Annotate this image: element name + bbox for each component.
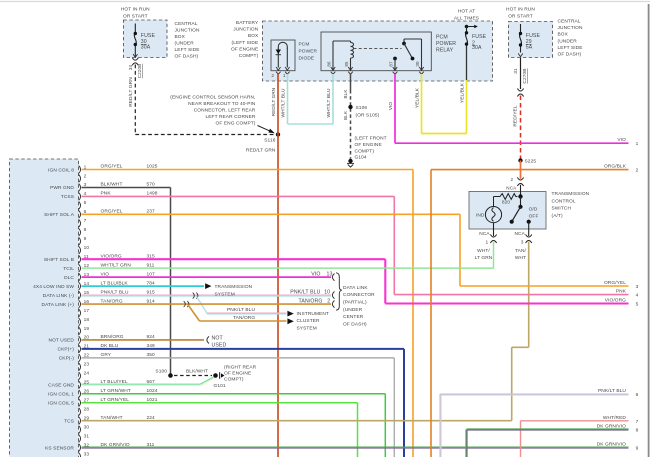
svg-text:CENTRAL: CENTRAL xyxy=(175,21,198,27)
svg-text:17: 17 xyxy=(84,308,90,314)
svg-text:31: 31 xyxy=(84,433,90,439)
svg-text:IGN COIL 1: IGN COIL 1 xyxy=(48,392,74,398)
svg-text:LEFT SIDE: LEFT SIDE xyxy=(175,47,200,53)
svg-text:NOT: NOT xyxy=(212,335,224,341)
svg-text:TCS: TCS xyxy=(64,418,74,424)
svg-text:CONNECTOR: CONNECTOR xyxy=(343,292,375,298)
svg-text:(UNDER: (UNDER xyxy=(175,41,195,47)
svg-text:YEL/BLK: YEL/BLK xyxy=(415,87,421,108)
svg-text:10: 10 xyxy=(84,245,90,251)
svg-text:POWER: POWER xyxy=(299,49,318,55)
svg-text:2: 2 xyxy=(511,177,514,182)
svg-text:NCA: NCA xyxy=(479,231,490,237)
svg-text:WHT/RED: WHT/RED xyxy=(603,415,627,421)
svg-text:BLK/WHT: BLK/WHT xyxy=(186,369,208,375)
svg-text:BLK: BLK xyxy=(343,110,348,120)
svg-text:SYSTEM: SYSTEM xyxy=(215,291,235,297)
svg-text:NOT USED: NOT USED xyxy=(49,338,75,344)
svg-text:30A: 30A xyxy=(141,45,151,51)
svg-text:PCM: PCM xyxy=(436,34,448,40)
svg-text:30: 30 xyxy=(84,424,90,430)
svg-text:28: 28 xyxy=(84,406,90,412)
svg-text:8: 8 xyxy=(636,428,639,434)
svg-text:S100: S100 xyxy=(155,369,167,375)
svg-text:WHT/: WHT/ xyxy=(477,248,490,254)
svg-text:PNK/LT BLU: PNK/LT BLU xyxy=(227,307,255,313)
svg-text:CENTRAL: CENTRAL xyxy=(558,19,581,25)
svg-text:DATA LINK (-): DATA LINK (-) xyxy=(43,293,75,299)
svg-text:BLK: BLK xyxy=(343,89,348,99)
svg-text:CKP(+): CKP(+) xyxy=(58,347,75,353)
svg-text:ORG/BLK: ORG/BLK xyxy=(604,164,627,170)
svg-text:DK GRN/VIO: DK GRN/VIO xyxy=(597,424,626,430)
svg-text:(UNDER: (UNDER xyxy=(343,307,363,313)
svg-text:(LEFT FRONT: (LEFT FRONT xyxy=(355,136,387,142)
svg-text:BATTERY: BATTERY xyxy=(236,20,259,26)
svg-text:5: 5 xyxy=(636,302,639,308)
svg-text:RED/LT GRN: RED/LT GRN xyxy=(246,148,276,154)
svg-text:HOT AT: HOT AT xyxy=(458,9,475,15)
svg-text:INSTRUMENT: INSTRUMENT xyxy=(297,311,329,317)
svg-text:OR START: OR START xyxy=(508,14,533,20)
svg-text:VIO/ORG: VIO/ORG xyxy=(605,298,626,304)
svg-text:G101: G101 xyxy=(214,383,226,389)
svg-text:BOX: BOX xyxy=(558,32,569,38)
svg-text:820: 820 xyxy=(502,200,511,206)
svg-text:24: 24 xyxy=(84,371,90,377)
svg-text:OF DASH): OF DASH) xyxy=(558,52,582,58)
svg-text:VIO: VIO xyxy=(388,102,394,111)
svg-text:2: 2 xyxy=(271,73,274,78)
svg-text:S106: S106 xyxy=(356,105,368,111)
svg-text:7: 7 xyxy=(84,218,87,224)
svg-text:TAN/ORG: TAN/ORG xyxy=(299,298,323,304)
svg-text:DIODE: DIODE xyxy=(299,56,315,62)
svg-text:JUNCTION: JUNCTION xyxy=(558,25,583,31)
svg-text:(RIGHT REAR: (RIGHT REAR xyxy=(224,364,257,370)
svg-text:JUNCTION: JUNCTION xyxy=(233,27,258,33)
svg-text:CONTROL: CONTROL xyxy=(552,198,576,204)
svg-text:S116: S116 xyxy=(264,138,275,144)
svg-text:1: 1 xyxy=(283,73,286,78)
svg-text:34: 34 xyxy=(128,65,133,71)
svg-text:IGN COIL 8: IGN COIL 8 xyxy=(48,167,74,173)
svg-text:CENTER: CENTER xyxy=(343,314,364,320)
svg-text:LEFT SIDE: LEFT SIDE xyxy=(558,45,583,51)
svg-text:4: 4 xyxy=(636,293,639,299)
svg-text:30: 30 xyxy=(415,61,420,67)
svg-text:2: 2 xyxy=(327,298,330,304)
svg-text:TCIL: TCIL xyxy=(63,266,74,272)
svg-text:ORG/YEL: ORG/YEL xyxy=(604,280,626,286)
svg-text:915: 915 xyxy=(147,289,156,295)
svg-text:DK GRN/VIO: DK GRN/VIO xyxy=(597,442,626,448)
svg-text:DATA LINK: DATA LINK xyxy=(343,285,368,291)
svg-text:19: 19 xyxy=(84,326,90,332)
svg-text:TCSS: TCSS xyxy=(61,194,74,200)
svg-text:NCA: NCA xyxy=(506,185,517,190)
svg-text:BOX: BOX xyxy=(248,33,259,39)
svg-text:PWR GND: PWR GND xyxy=(50,185,74,191)
svg-text:3: 3 xyxy=(521,239,524,245)
svg-text:(ENGINE CONTROL SENSOR HARN,: (ENGINE CONTROL SENSOR HARN, xyxy=(170,94,255,100)
svg-text:NCA: NCA xyxy=(514,231,525,237)
svg-text:OF DASH): OF DASH) xyxy=(175,54,199,60)
svg-text:(A/T): (A/T) xyxy=(552,213,563,219)
svg-text:PNK/LT BLU: PNK/LT BLU xyxy=(598,388,626,394)
svg-text:COMPT): COMPT) xyxy=(355,148,375,154)
svg-text:NEAR BREAKOUT TO 40-PIN: NEAR BREAKOUT TO 40-PIN xyxy=(188,101,256,107)
svg-text:CONNECTOR, LEFT REAR: CONNECTOR, LEFT REAR xyxy=(194,108,256,114)
svg-text:4X4 LOW IND SW: 4X4 LOW IND SW xyxy=(33,284,74,290)
svg-text:COMPT): COMPT) xyxy=(224,377,244,383)
svg-text:OF ENGINE: OF ENGINE xyxy=(224,371,251,377)
svg-text:KS SENSOR: KS SENSOR xyxy=(45,445,74,451)
svg-text:CKP(-): CKP(-) xyxy=(59,356,75,362)
svg-text:USED: USED xyxy=(212,343,227,349)
svg-text:CLUSTER: CLUSTER xyxy=(297,318,321,324)
svg-text:31: 31 xyxy=(513,68,519,74)
svg-text:HOT IN RUN: HOT IN RUN xyxy=(506,7,535,13)
svg-text:9: 9 xyxy=(636,446,639,452)
svg-text:OR START: OR START xyxy=(123,14,148,20)
svg-text:TRANSMISSION: TRANSMISSION xyxy=(552,191,590,197)
svg-text:RED/YEL: RED/YEL xyxy=(513,105,519,126)
svg-text:87: 87 xyxy=(389,61,394,67)
svg-text:3: 3 xyxy=(636,284,639,290)
svg-text:30A: 30A xyxy=(472,45,482,51)
svg-text:SHIFT SOL B: SHIFT SOL B xyxy=(44,257,74,263)
svg-text:OF ENG COMPT): OF ENG COMPT) xyxy=(216,121,256,127)
svg-text:PCM: PCM xyxy=(299,42,310,48)
svg-text:WHT/LT BLU: WHT/LT BLU xyxy=(326,88,332,118)
svg-text:PNK: PNK xyxy=(616,289,627,295)
svg-text:9: 9 xyxy=(84,236,87,242)
svg-text:C270B: C270B xyxy=(522,68,528,83)
svg-text:G104: G104 xyxy=(355,155,367,161)
svg-text:(LEFT SIDE: (LEFT SIDE xyxy=(232,40,259,46)
svg-text:C220B: C220B xyxy=(137,64,142,79)
svg-text:POWER: POWER xyxy=(436,41,456,47)
svg-text:1: 1 xyxy=(486,239,489,245)
svg-text:18: 18 xyxy=(84,317,90,323)
svg-text:8: 8 xyxy=(84,227,87,233)
svg-text:10: 10 xyxy=(324,289,330,295)
svg-text:IND: IND xyxy=(476,213,485,219)
svg-text:OF DASH): OF DASH) xyxy=(343,322,367,328)
svg-text:IGN COIL 5: IGN COIL 5 xyxy=(48,401,74,407)
svg-text:(UNDER: (UNDER xyxy=(558,38,578,44)
svg-text:S225: S225 xyxy=(525,159,537,165)
svg-text:LEFT REAR CORNER: LEFT REAR CORNER xyxy=(205,114,255,120)
svg-text:(PARTIAL): (PARTIAL) xyxy=(343,300,367,306)
svg-text:13: 13 xyxy=(327,271,333,277)
svg-text:VIO: VIO xyxy=(311,271,320,277)
svg-text:23: 23 xyxy=(84,362,90,368)
svg-text:1: 1 xyxy=(636,141,639,147)
svg-text:PNK/LT BLU: PNK/LT BLU xyxy=(101,289,129,295)
svg-text:YEL/BLK: YEL/BLK xyxy=(460,82,466,103)
svg-text:DATA LINK (+): DATA LINK (+) xyxy=(42,302,75,308)
svg-text:7: 7 xyxy=(636,419,639,425)
svg-text:PNK/LT BLU: PNK/LT BLU xyxy=(290,289,320,295)
svg-text:5: 5 xyxy=(84,200,87,206)
svg-text:RED/LT GRN: RED/LT GRN xyxy=(128,77,134,107)
svg-text:ALL TIMES: ALL TIMES xyxy=(454,16,479,22)
svg-text:JUNCTION: JUNCTION xyxy=(175,28,200,34)
svg-text:BOX: BOX xyxy=(175,34,186,40)
svg-text:SHIFT SOL A: SHIFT SOL A xyxy=(44,212,75,218)
svg-text:TAN/ORG: TAN/ORG xyxy=(233,315,255,321)
svg-text:2: 2 xyxy=(636,168,639,174)
svg-text:(OR S105): (OR S105) xyxy=(356,113,380,119)
svg-text:FUSE: FUSE xyxy=(472,34,487,40)
svg-text:HOT IN RUN: HOT IN RUN xyxy=(121,7,150,13)
svg-text:85: 85 xyxy=(344,61,349,67)
svg-text:DLC: DLC xyxy=(64,275,74,281)
svg-text:VIO: VIO xyxy=(617,137,626,143)
svg-text:SYSTEM: SYSTEM xyxy=(297,325,317,331)
svg-text:CASE GND: CASE GND xyxy=(48,383,74,389)
svg-text:RED/LT GRN: RED/LT GRN xyxy=(271,88,276,116)
svg-text:OF ENGINE: OF ENGINE xyxy=(355,142,382,148)
svg-text:WHT: WHT xyxy=(515,255,526,261)
svg-text:86: 86 xyxy=(327,61,332,67)
svg-text:TAN/: TAN/ xyxy=(515,248,527,254)
svg-text:COMPT): COMPT) xyxy=(239,53,259,59)
svg-text:RELAY: RELAY xyxy=(436,48,454,54)
svg-text:SWITCH: SWITCH xyxy=(552,206,572,212)
svg-text:OFF: OFF xyxy=(529,214,539,220)
svg-text:O/D: O/D xyxy=(529,206,538,212)
svg-text:33: 33 xyxy=(84,451,90,457)
svg-text:5A: 5A xyxy=(526,45,533,51)
svg-text:WHT/LT BLU: WHT/LT BLU xyxy=(281,88,287,118)
svg-text:6: 6 xyxy=(636,392,639,398)
svg-text:OF ENGINE: OF ENGINE xyxy=(231,46,258,52)
svg-text:LT GRN: LT GRN xyxy=(475,255,493,261)
svg-text:2: 2 xyxy=(84,173,87,179)
svg-text:TRANSMISSION: TRANSMISSION xyxy=(215,284,253,290)
